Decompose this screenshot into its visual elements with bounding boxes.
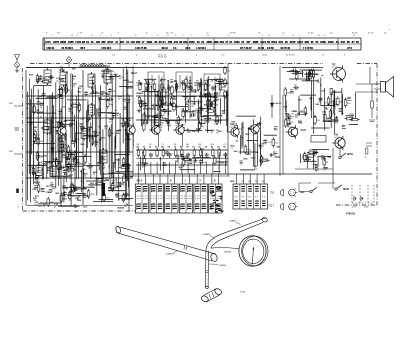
svg-text:13: 13	[157, 35, 159, 37]
svg-text:1-MM26: 1-MM26	[229, 221, 237, 223]
svg-text:T51: T51	[270, 192, 275, 195]
svg-text:2322: 2322	[328, 40, 334, 44]
svg-text:3534: 3534	[271, 40, 277, 44]
svg-text:3 6 58: 3 6 58	[267, 47, 274, 50]
svg-text:SK12: SK12	[131, 73, 137, 75]
svg-text:08 5: 08 5	[81, 47, 86, 50]
svg-text:3465: 3465	[68, 40, 74, 44]
svg-text:4-MM26: 4-MM26	[166, 254, 174, 256]
svg-text:4 36 77 38: 4 36 77 38	[135, 47, 147, 50]
svg-text:T55: T55	[287, 123, 292, 126]
svg-text:1: 1	[152, 35, 153, 37]
svg-text:4 65 48 3: 4 65 48 3	[101, 47, 112, 50]
svg-text:35.41.50: 35.41.50	[158, 57, 167, 59]
svg-text:41 45 44: 41 45 44	[286, 55, 295, 57]
svg-text:51: 51	[292, 35, 294, 37]
svg-text:T54: T54	[230, 124, 235, 127]
svg-text:427: 427	[246, 40, 251, 44]
svg-text:009: 009	[183, 40, 188, 44]
svg-text:9638: 9638	[60, 40, 66, 44]
svg-text:7 4 70 56: 7 4 70 56	[303, 47, 314, 50]
svg-text:T51: T51	[126, 122, 131, 125]
svg-text:64: 64	[207, 35, 209, 37]
svg-text:T50: T50	[57, 123, 62, 126]
svg-text:353: 353	[220, 40, 225, 44]
svg-text:27 0: 27 0	[347, 47, 352, 50]
svg-text:262: 262	[136, 40, 141, 44]
svg-text:982: 982	[305, 40, 310, 44]
svg-text:1: 1	[262, 35, 263, 37]
svg-text:5-MM26: 5-MM26	[203, 234, 211, 236]
svg-text:OC72: OC72	[334, 137, 340, 139]
svg-text:SK: SK	[137, 180, 141, 183]
svg-text:43.41: 43.41	[262, 55, 268, 57]
svg-text:468: 468	[168, 40, 173, 44]
svg-text:18: 18	[135, 35, 137, 37]
svg-text:01 55 98 6: 01 55 98 6	[62, 47, 74, 50]
svg-text:382: 382	[101, 40, 106, 44]
svg-text:342: 342	[341, 40, 346, 44]
svg-text:2081: 2081	[189, 40, 195, 44]
svg-text:4124: 4124	[260, 40, 266, 44]
svg-text:24: 24	[227, 35, 229, 37]
svg-text:133: 133	[131, 40, 136, 44]
svg-text:1: 1	[283, 35, 284, 37]
svg-text:AF117: AF117	[126, 124, 133, 127]
svg-text:SK58: SK58	[343, 189, 349, 191]
svg-text:6: 6	[111, 35, 112, 37]
svg-text:4278: 4278	[290, 40, 296, 44]
svg-text:69 6: 69 6	[186, 47, 191, 50]
svg-text:SK11: SK11	[246, 154, 252, 156]
svg-text:1183: 1183	[234, 40, 240, 44]
svg-text:234: 234	[174, 40, 179, 44]
svg-text:89 13: 89 13	[162, 47, 169, 50]
svg-text:0112: 0112	[297, 40, 303, 44]
svg-text:8: 8	[77, 35, 78, 37]
svg-text:3990: 3990	[207, 40, 213, 44]
svg-text:SK59: SK59	[347, 154, 353, 156]
svg-text:91: 91	[268, 35, 270, 37]
svg-text:02: 02	[91, 35, 93, 37]
svg-text:19: 19	[174, 35, 176, 37]
svg-text:34 58: 34 58	[258, 47, 265, 50]
svg-text:OC72: OC72	[332, 67, 338, 69]
svg-text:8: 8	[324, 35, 325, 37]
svg-text:94 96: 94 96	[230, 33, 236, 35]
svg-text:2: 2	[51, 35, 52, 37]
svg-text:998: 998	[214, 40, 219, 44]
svg-text:6Y08 82: 6Y08 82	[346, 213, 356, 216]
svg-text:1080: 1080	[147, 40, 153, 44]
svg-text:47 46: 47 46	[308, 33, 314, 35]
svg-text:T58: T58	[334, 134, 339, 137]
svg-text:90 70 46: 90 70 46	[281, 47, 291, 50]
svg-text:OC71: OC71	[287, 127, 293, 129]
svg-text:Tu: Tu	[17, 207, 19, 209]
svg-text:87 7 43 87: 87 7 43 87	[240, 47, 252, 50]
svg-text:T53: T53	[175, 122, 180, 125]
svg-text:43: 43	[353, 35, 355, 37]
svg-text:1xAA119: 1xAA119	[274, 102, 282, 105]
svg-text:2: 2	[183, 35, 184, 37]
svg-text:52: 52	[167, 35, 169, 37]
svg-text:T52-7: T52-7	[268, 205, 275, 208]
svg-text:4 86 01: 4 86 01	[46, 47, 55, 50]
svg-text:6 Y62: 6 Y62	[240, 292, 246, 294]
svg-text:016: 016	[279, 40, 284, 44]
svg-text:OC45: OC45	[175, 125, 181, 127]
svg-text:2-MM26: 2-MM26	[224, 252, 231, 254]
svg-text:9737: 9737	[108, 40, 114, 44]
svg-text:3: 3	[100, 35, 101, 37]
svg-text:0.3W: 0.3W	[364, 207, 369, 209]
svg-text:89: 89	[318, 35, 320, 37]
svg-text:1586: 1586	[320, 40, 326, 44]
svg-text:00: 00	[71, 35, 73, 37]
svg-text:1 32 08 1: 1 32 08 1	[196, 47, 207, 50]
svg-text:667: 667	[120, 40, 125, 44]
svg-text:7133: 7133	[75, 40, 81, 44]
svg-text:2278: 2278	[53, 40, 59, 44]
svg-text:AF116: AF116	[57, 125, 64, 128]
svg-text:T57: T57	[332, 63, 337, 66]
svg-text:5: 5	[191, 35, 192, 37]
svg-text:4980: 4980	[253, 40, 259, 44]
svg-text:T52: T52	[151, 122, 156, 125]
svg-text:L-MM26: L-MM26	[219, 265, 227, 267]
svg-text:51 30: 51 30	[368, 33, 374, 35]
svg-text:OC75: OC75	[230, 127, 236, 129]
svg-text:4: 4	[299, 35, 300, 37]
svg-text:183: 183	[96, 40, 101, 44]
svg-text:OC44: OC44	[151, 125, 157, 127]
svg-text:1171: 1171	[45, 40, 51, 44]
